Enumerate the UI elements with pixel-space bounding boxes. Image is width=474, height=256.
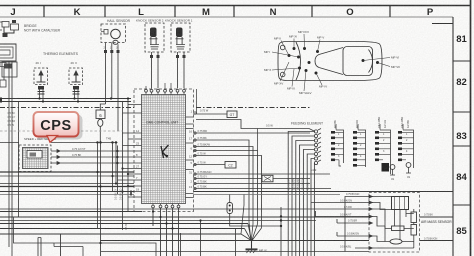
- wire bend x13 y243: [14, 217, 157, 256]
- air mass sensor pin wires: [0, 197, 395, 252]
- wire DME pin1 stub: [194, 89, 228, 114]
- label 0.75 BR: [198, 129, 207, 133]
- DME bottom pins: [152, 204, 180, 208]
- wire 0.5W feed loop: [196, 120, 309, 129]
- label 0.75 W pin1: [200, 109, 209, 113]
- label MP VI: [391, 56, 399, 60]
- rotated bus wire labels: [115, 188, 129, 230]
- left edge cut components: [0, 98, 2, 103]
- wire feed 8: [313, 163, 315, 256]
- label 0.75 BK 26: [198, 184, 207, 188]
- vertical wire x116: [115, 143, 117, 185]
- label MP I: [264, 50, 270, 54]
- bus wire y217: [0, 216, 453, 218]
- label 2K I: [36, 61, 42, 65]
- label MP IX: [259, 249, 267, 253]
- bus wire y228.5: [0, 228, 245, 230]
- label T45: [106, 137, 112, 141]
- knock sensor 1: [171, 23, 190, 52]
- junction tick x131: [130, 191, 132, 196]
- DME left pin stubs: [123, 105, 142, 198]
- wire feed 6: [307, 154, 314, 256]
- wire stub 17: [194, 140, 250, 208]
- connector box left edge: [2, 62, 17, 77]
- wire knock2 a: [151, 52, 153, 89]
- DME right pin numbers: [189, 110, 193, 190]
- left vertical wire x9: [8, 66, 10, 247]
- bus wire y211.5: [0, 211, 142, 213]
- left vertical bus c: [127, 99, 129, 212]
- inline connector box C3: [262, 175, 273, 182]
- bus wire y240.5 L-bend: [101, 241, 454, 256]
- DME right pin circles: [194, 112, 196, 190]
- label MP II: [274, 37, 281, 41]
- left vertical bus b: [122, 102, 124, 231]
- label 0.75 BK: [72, 153, 81, 157]
- wire feed 3: [296, 141, 315, 256]
- bus wire upper2: [0, 100, 131, 102]
- wire thermo2 to bus: [75, 90, 79, 102]
- label 0.75 BK/W: [198, 142, 211, 146]
- knock sensor 2 pins: [150, 55, 160, 58]
- label MP IX/V: [298, 30, 309, 34]
- bus wire upper1: [0, 97, 131, 99]
- wire stub 31: [194, 173, 331, 175]
- label 0.75 W 5: [198, 160, 207, 164]
- junction dots on bus: [116, 97, 129, 192]
- wire DME left stubs to bus: [118, 133, 135, 197]
- vertical wire x97.5: [96, 143, 98, 229]
- wire stub 12a: [194, 151, 258, 211]
- wire feed 4: [300, 145, 315, 256]
- wire speed b: [68, 156, 118, 158]
- knock sensor 1 pins: [176, 55, 186, 58]
- ground fan wires: [241, 195, 262, 241]
- long bus wire y191.5: [0, 191, 453, 193]
- fuse 6: [96, 104, 106, 143]
- label MP III: [287, 87, 295, 91]
- wire hall 2: [111, 53, 113, 99]
- bus wire y220.5: [0, 220, 316, 222]
- air mass sensor B2: [369, 193, 420, 253]
- gray dashed guide y131: [0, 130, 123, 132]
- car measuring point dots: [288, 47, 380, 75]
- left vertical pair x38: [38, 238, 41, 256]
- wire pill down bend: [230, 214, 281, 227]
- left vertical wire x12: [11, 66, 13, 256]
- DME control unit U1: [134, 89, 194, 212]
- wire feed 7: [311, 159, 314, 256]
- wire feed 5: [303, 150, 314, 256]
- wire stub 2: [194, 178, 263, 180]
- label 0.75 GY: [72, 147, 86, 151]
- air pin arrows: [369, 195, 373, 250]
- wire knock1 b: [183, 52, 185, 89]
- junction dots bottom: [152, 210, 174, 229]
- car leader lines: [272, 34, 390, 91]
- vertical wire x235: [235, 229, 237, 256]
- wire stub 12: [194, 156, 262, 213]
- terminal block left edge: [0, 80, 6, 87]
- wire stub 6: [194, 147, 254, 209]
- relay J (nested box, cut at left edge): [0, 44, 16, 67]
- ground MP IX: [246, 240, 258, 253]
- label MP VALV: [299, 91, 312, 95]
- wire stub 13: [194, 183, 311, 185]
- speed sensor G1: [19, 145, 51, 172]
- rotated wire labels bundle: [287, 177, 309, 190]
- label DME CONTROL UNIT: [147, 121, 179, 125]
- hall sensor: [101, 24, 126, 44]
- label AIR MASS SENSOR: [421, 220, 452, 224]
- hall sensor connector pins: [104, 43, 120, 54]
- label 0.75 GY 2: [198, 174, 208, 178]
- bridge (not with catalyser): [0, 20, 19, 37]
- thermo element 1: [34, 68, 48, 94]
- speed sensor pins: [51, 150, 68, 165]
- label THERMO ELEMENTS: [43, 52, 79, 56]
- connector box X1: [227, 111, 237, 118]
- long bus wire y183.5 left: [0, 183, 134, 185]
- connector ladder C41: [375, 117, 395, 181]
- DME left pin numbers: [136, 129, 139, 192]
- DME right unused pin stubs: [186, 117, 194, 198]
- label 0.5 W: [266, 124, 273, 128]
- label 14/9: [311, 168, 317, 172]
- left vertical bus a: [117, 146, 119, 195]
- label SPEED SENSOR: [24, 137, 56, 141]
- car top view: [278, 42, 382, 81]
- wire feed 2: [292, 136, 314, 256]
- wire feed 1: [288, 132, 314, 256]
- bottom wire labels: [424, 214, 438, 241]
- label 0.75 BK/GN: [198, 170, 212, 174]
- bus wire y250.5: [101, 251, 369, 253]
- wire stub 16: [194, 132, 311, 134]
- wire pill up: [229, 195, 231, 203]
- DME bottom wire bundle: [153, 208, 179, 256]
- svg-text:CPS: CPS: [40, 118, 72, 134]
- long bus wire y176 left: [0, 175, 134, 177]
- DME top pins: [145, 83, 186, 95]
- long bus wire y172 left: [0, 171, 134, 173]
- label FEEDING ELEMENT: [291, 122, 323, 126]
- left vertical wire x18.5: [18, 102, 20, 218]
- label KNOCK SENSOR 2: [136, 19, 164, 23]
- label MP IV: [319, 85, 327, 89]
- inline connector pill: [227, 203, 233, 214]
- CPS watermark bubble: [34, 112, 83, 142]
- feeding element connector 14/9: [309, 129, 321, 165]
- label 2K II: [71, 61, 77, 65]
- wire thermo1 to bus: [40, 90, 44, 102]
- label MP VII: [391, 65, 400, 69]
- connector ladder C2L: [353, 120, 366, 167]
- thermo element 2: [69, 68, 83, 94]
- wire speed a: [68, 150, 118, 152]
- wire vertical 257: [257, 129, 259, 151]
- hall pin numbers: [104, 47, 119, 50]
- wire hall 1: [105, 53, 107, 104]
- vertical wire x100.5: [99, 143, 101, 241]
- label MP XI: [289, 35, 297, 39]
- wire hall 3: [117, 53, 119, 131]
- vertical wire x180 bend: [180, 233, 182, 256]
- vertical wire x281: [280, 207, 282, 256]
- label 0.75 W 12: [198, 151, 207, 155]
- bus wire y234 L-bend: [0, 234, 241, 256]
- label KNOCK SENSOR 1: [165, 19, 193, 23]
- wire stub 2b: [273, 178, 310, 180]
- bus wire y223.5: [0, 223, 248, 225]
- label MP V: [317, 36, 324, 40]
- connector ladder C42: [398, 117, 414, 179]
- label HALL SENSOR: [107, 19, 131, 23]
- K mark: [161, 145, 169, 158]
- wire speed c: [68, 162, 118, 164]
- air wire labels: [340, 193, 360, 249]
- long bus wire y194: [0, 194, 340, 196]
- wire color label stack: [8, 112, 16, 127]
- vertical wire x112.5: [111, 143, 113, 192]
- vertical wire x200: [199, 219, 201, 256]
- wire knock2 b: [157, 52, 159, 89]
- label 0.75 BK 13: [198, 179, 207, 183]
- watermark: [34, 112, 83, 142]
- wire knock1 a: [177, 52, 179, 89]
- wire segment y246: [54, 243, 83, 256]
- knock sensor 2: [145, 23, 164, 52]
- long bus wire y186 left: [0, 186, 134, 188]
- label BRIDGE NOT WITH CATALYSER: [24, 24, 61, 33]
- section boundary dash-dot wire: [0, 107, 310, 109]
- wire from relay down: [4, 61, 12, 80]
- connector box C2: [225, 162, 236, 169]
- label 0.75 BK 17: [198, 136, 207, 140]
- wire stub 26: [194, 188, 332, 190]
- label MP XV: [274, 82, 283, 86]
- wire stub 5: [194, 164, 226, 166]
- label MP X left: [264, 68, 271, 72]
- bus wire y142.5: [0, 141, 118, 143]
- connector ladder C1: [331, 120, 344, 166]
